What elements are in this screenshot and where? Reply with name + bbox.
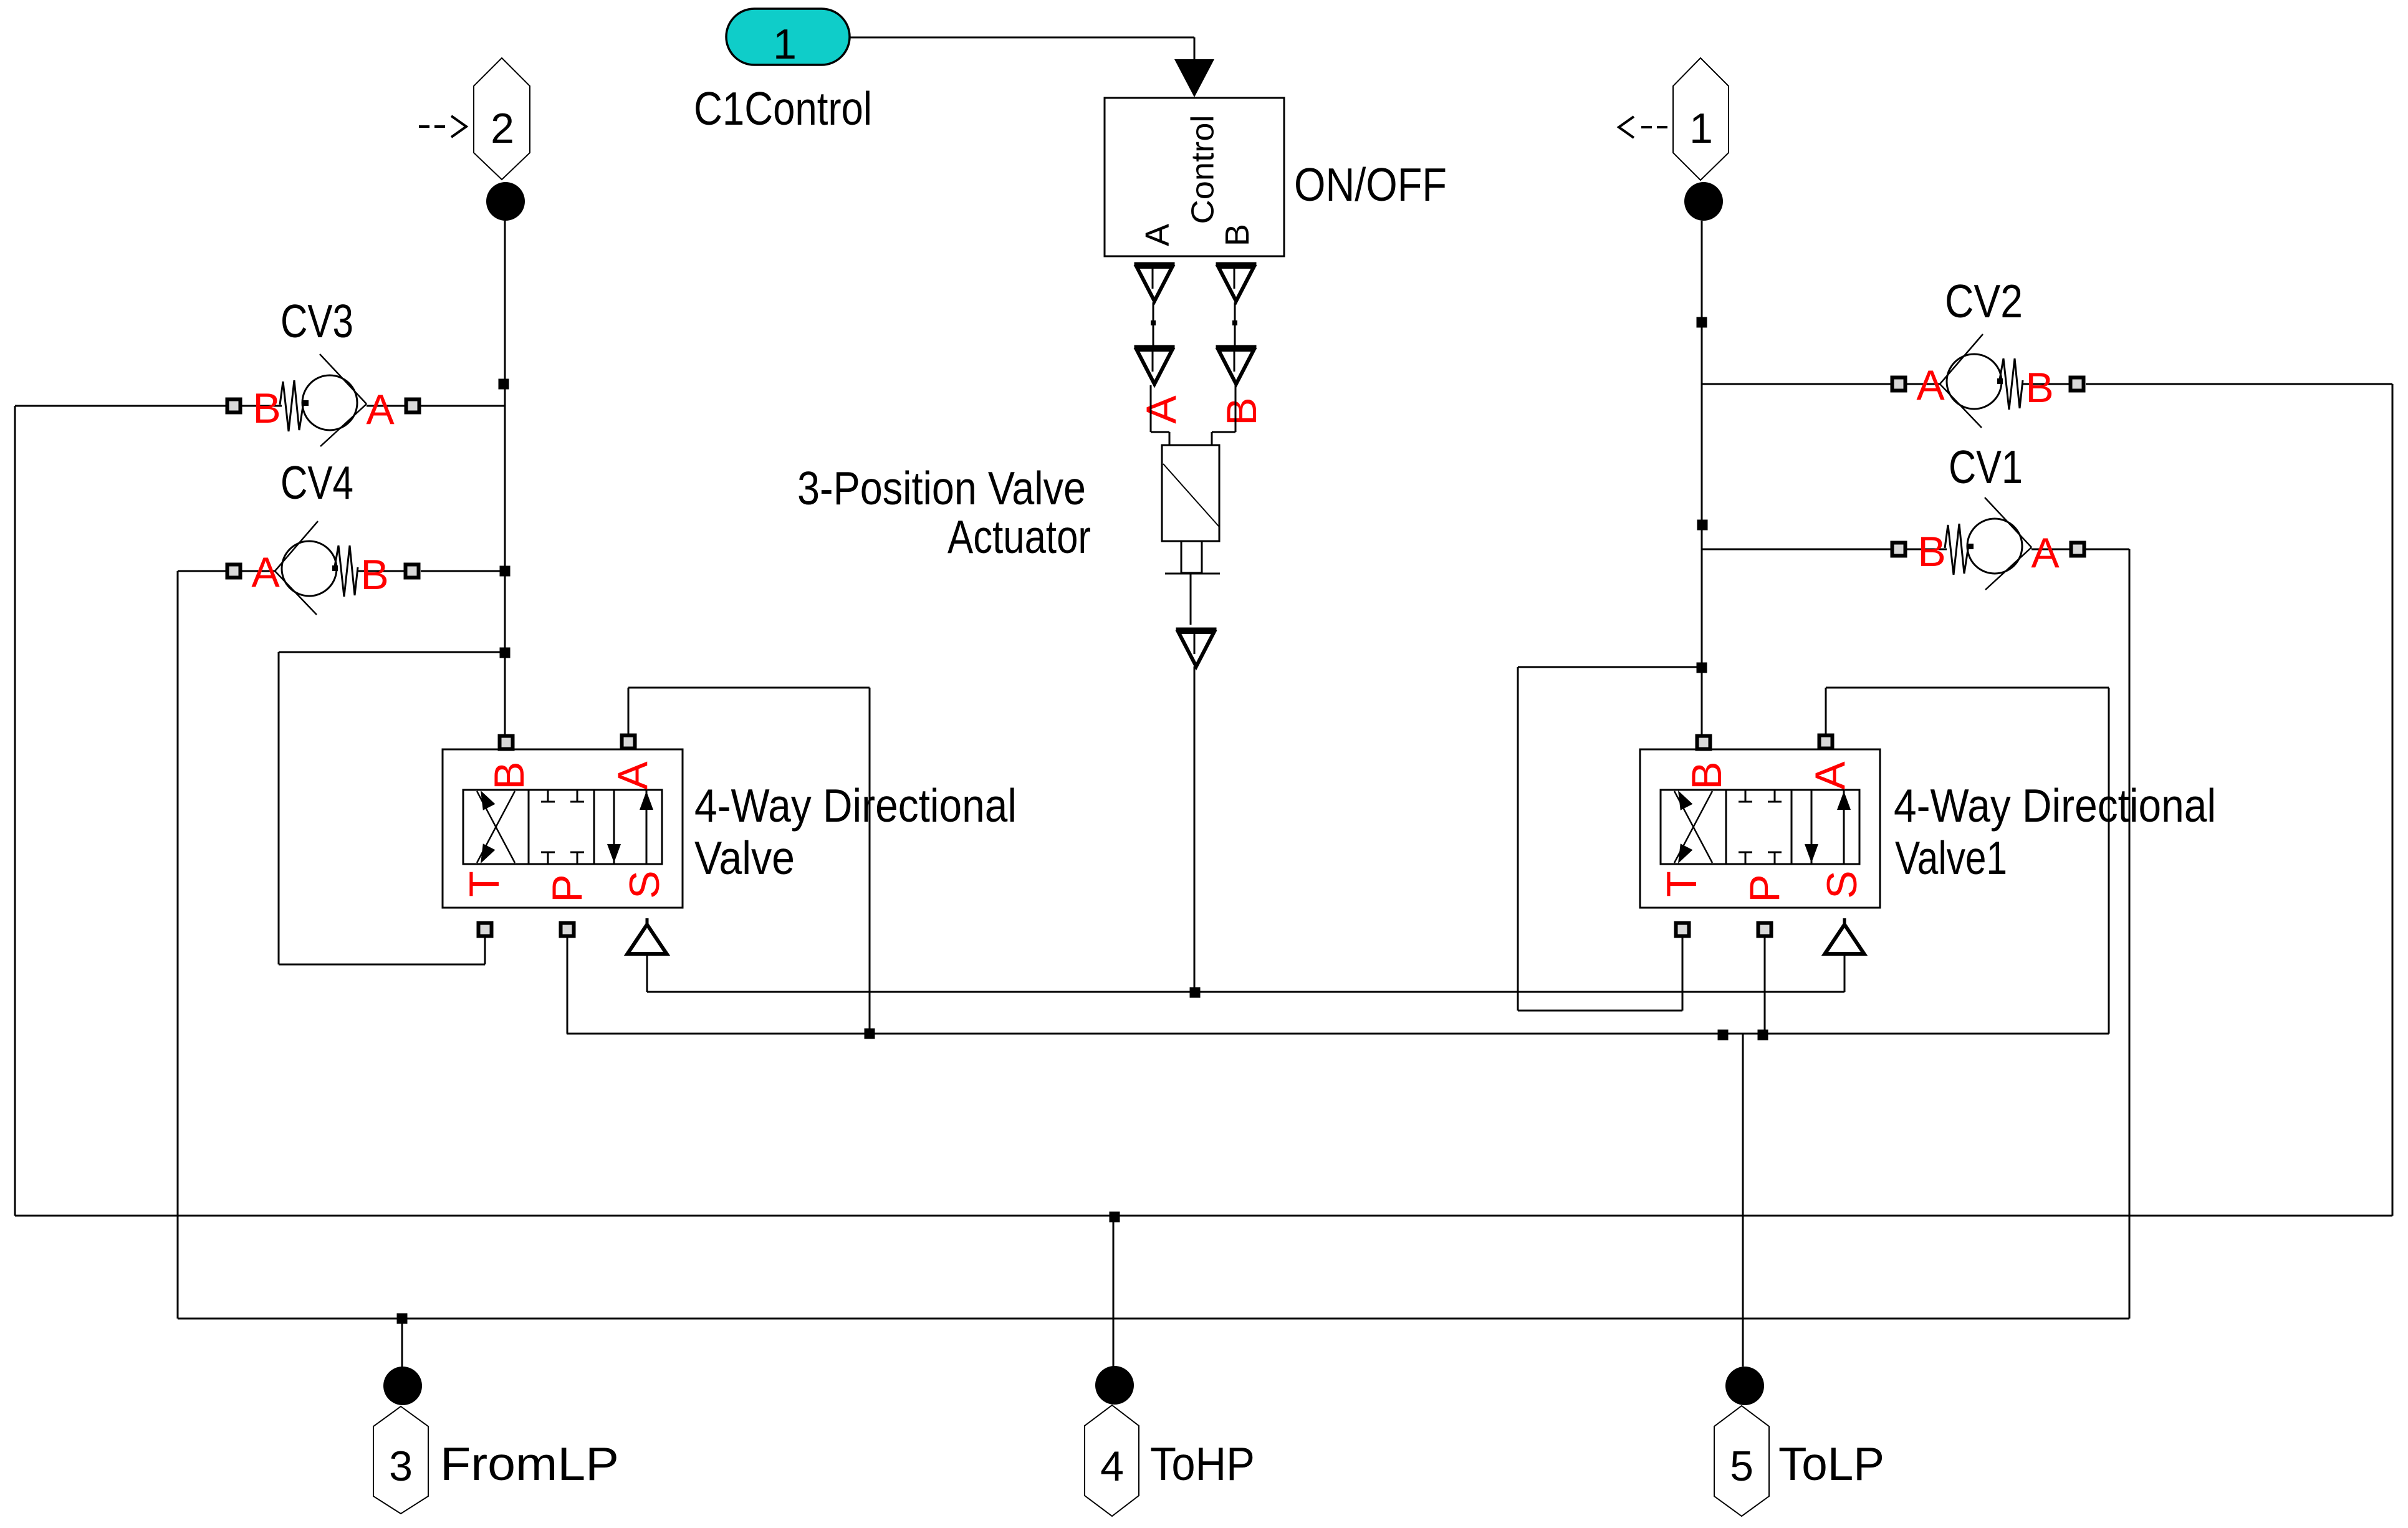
svg-text:CV3: CV3 [281, 295, 353, 347]
svg-text:Control: Control [1185, 115, 1221, 224]
svg-text:A: A [1139, 224, 1176, 246]
svg-text:4-Way Directional: 4-Way Directional [1894, 779, 2216, 832]
svg-text:Actuator: Actuator [947, 511, 1091, 563]
svg-text:3-Position Valve: 3-Position Valve [797, 462, 1086, 514]
svg-text:B: B [1219, 224, 1256, 246]
svg-text:Valve1: Valve1 [1895, 832, 2007, 884]
svg-text:CV4: CV4 [281, 456, 353, 509]
svg-text:FromLP: FromLP [440, 1438, 619, 1490]
svg-text:ToHP: ToHP [1150, 1438, 1255, 1490]
svg-text:B: B [1218, 397, 1265, 425]
svg-text:2: 2 [491, 105, 514, 152]
svg-text:ToLP: ToLP [1778, 1438, 1884, 1490]
svg-text:3: 3 [389, 1443, 413, 1490]
svg-text:T: T [461, 871, 508, 897]
svg-text:5: 5 [1730, 1443, 1753, 1490]
svg-text:A: A [251, 549, 280, 596]
svg-text:4-Way Directional: 4-Way Directional [694, 779, 1017, 832]
svg-text:CV2: CV2 [1945, 275, 2023, 327]
svg-text:A: A [1138, 395, 1185, 424]
svg-text:4: 4 [1100, 1443, 1124, 1490]
svg-text:A: A [1806, 761, 1854, 790]
svg-text:A: A [609, 761, 656, 790]
svg-text:T: T [1658, 871, 1705, 897]
svg-text:ON/OFF: ON/OFF [1294, 158, 1447, 211]
svg-text:P: P [544, 874, 591, 902]
svg-text:CV1: CV1 [1949, 441, 2023, 493]
svg-text:1: 1 [773, 21, 797, 68]
svg-text:A: A [1916, 362, 1945, 409]
svg-text:S: S [621, 870, 668, 898]
svg-text:B: B [1683, 761, 1730, 789]
svg-text:S: S [1818, 870, 1866, 898]
svg-text:B: B [360, 551, 388, 598]
svg-text:B: B [1917, 528, 1945, 575]
svg-text:Valve: Valve [694, 832, 795, 884]
svg-text:B: B [252, 385, 281, 432]
svg-text:1: 1 [1689, 105, 1713, 152]
svg-text:A: A [2031, 529, 2060, 577]
svg-text:B: B [2025, 364, 2053, 411]
svg-text:P: P [1741, 874, 1788, 902]
svg-text:A: A [366, 386, 395, 433]
svg-text:C1Control: C1Control [694, 82, 872, 135]
svg-text:B: B [486, 761, 533, 789]
